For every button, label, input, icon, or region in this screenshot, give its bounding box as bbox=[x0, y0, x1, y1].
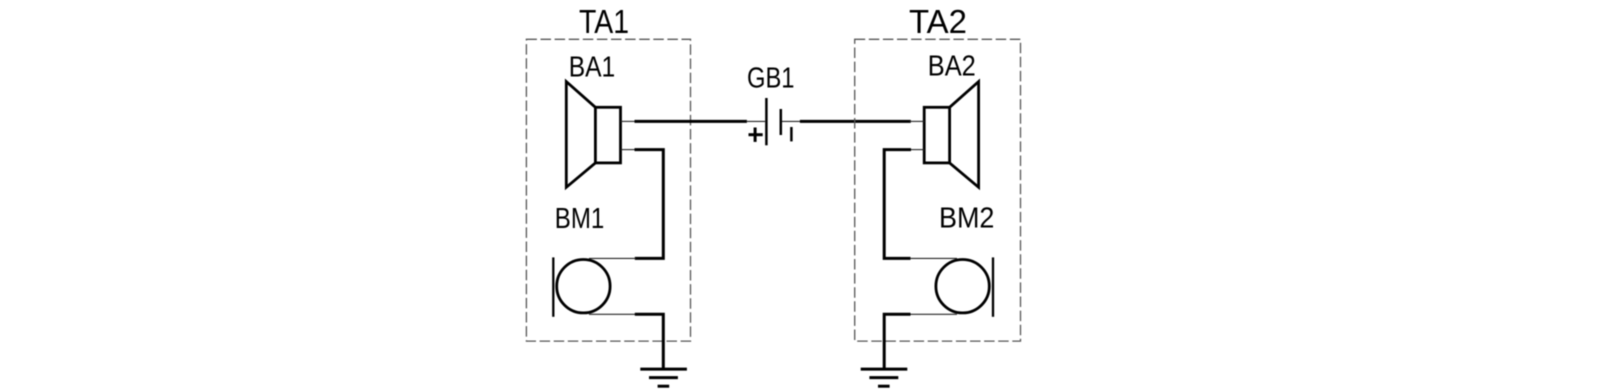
svg-text:TA2: TA2 bbox=[909, 3, 967, 40]
wire BM1 bottom to ground bbox=[635, 314, 664, 369]
enclosure TA1 dashed box bbox=[526, 39, 690, 341]
label GB1 bbox=[747, 63, 795, 95]
microphone BM1 bbox=[553, 257, 610, 316]
label BM1 bbox=[555, 203, 605, 235]
pin lead BM2 top bbox=[910, 257, 957, 259]
label BA2 bbox=[928, 51, 976, 83]
wire BA2 bottom to BM2 top bbox=[884, 150, 911, 259]
pin lead BM1 top bbox=[589, 257, 636, 259]
speaker BA2 bbox=[924, 82, 978, 188]
label BM2 bbox=[939, 203, 994, 235]
enclosure TA2 dashed box bbox=[855, 39, 1021, 341]
pin lead BM2 bottom bbox=[910, 313, 957, 315]
pin lead BA1 bottom bbox=[621, 149, 636, 151]
wire GB1 to BA2 bbox=[800, 120, 911, 123]
block label TA2 bbox=[909, 3, 967, 40]
wire BA1 bottom to BM1 top bbox=[635, 150, 664, 259]
battery GB1 bbox=[747, 98, 801, 145]
svg-text:TA1: TA1 bbox=[579, 3, 629, 40]
svg-text:BA2: BA2 bbox=[928, 51, 976, 83]
microphone BM2 bbox=[936, 257, 993, 316]
battery GB1 plus sign bbox=[749, 128, 763, 142]
wire BM2 bottom to ground bbox=[884, 314, 910, 369]
svg-text:GB1: GB1 bbox=[747, 63, 795, 95]
wire BA1 top to GB1 bbox=[635, 120, 747, 123]
block label TA1 bbox=[579, 3, 629, 40]
speaker BA1 bbox=[566, 82, 620, 188]
svg-text:BM1: BM1 bbox=[555, 203, 605, 235]
label BA1 bbox=[569, 52, 616, 84]
pin lead BA2 bottom bbox=[910, 149, 925, 151]
pin lead BA1 top bbox=[621, 120, 636, 122]
ground symbol right bbox=[861, 369, 908, 386]
pin lead BA2 top bbox=[910, 120, 925, 122]
pin lead BM1 bottom bbox=[589, 313, 636, 315]
svg-text:BA1: BA1 bbox=[569, 52, 616, 84]
ground symbol left bbox=[640, 369, 687, 386]
svg-text:BM2: BM2 bbox=[939, 203, 994, 235]
